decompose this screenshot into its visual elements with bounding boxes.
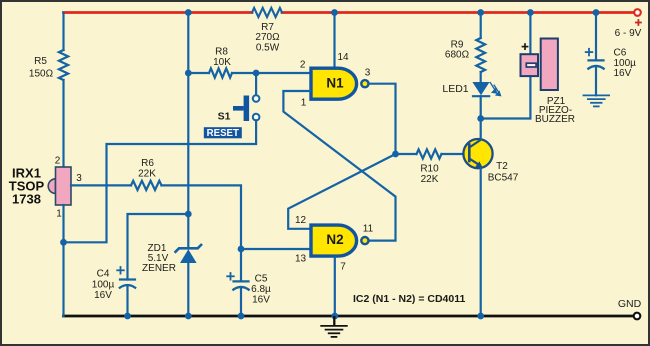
node emitter ground junction: [477, 313, 484, 320]
wire cross-coupling N2 out to N1 pin1: [283, 91, 395, 241]
svg-text:150Ω: 150Ω: [29, 69, 54, 80]
svg-text:12: 12: [295, 215, 307, 226]
node LED / buzzer junction: [477, 115, 484, 122]
svg-text:BC547: BC547: [488, 172, 519, 183]
node pin7 ground junction: [331, 313, 338, 320]
wire N1 pin14 to supply: [333, 13, 335, 68]
svg-text:7: 7: [340, 262, 346, 273]
node S1 branch junction: [253, 70, 260, 77]
wire R6 to C5 column: [162, 185, 242, 281]
svg-text:N2: N2: [326, 232, 343, 247]
svg-text:16V: 16V: [94, 290, 112, 301]
ground terminal GND: [634, 313, 641, 320]
svg-text:R5: R5: [34, 56, 47, 67]
wire R10 line: [396, 153, 417, 155]
svg-text:C4: C4: [97, 269, 110, 280]
ground symbol below rail: [333, 316, 335, 326]
node C4 ground junction: [124, 313, 131, 320]
svg-text:100µ: 100µ: [92, 280, 115, 291]
resistor R9: [476, 38, 485, 72]
svg-text:ZENER: ZENER: [142, 263, 176, 274]
node red rail / main vertical: [185, 9, 192, 16]
wire supply to C6: [595, 13, 597, 61]
resistor R8: [209, 68, 232, 77]
svg-text:13: 13: [295, 254, 307, 265]
wire buzzer branch: [481, 78, 531, 119]
piezo buzzer PZ1: [521, 54, 539, 76]
svg-text:680Ω: 680Ω: [445, 50, 470, 61]
svg-text:2: 2: [300, 60, 306, 71]
ground symbol C6: [583, 95, 610, 106]
node N1 output / R10 junction: [392, 151, 399, 158]
node ZD1 ground junction: [185, 313, 192, 320]
svg-text:6 - 9V: 6 - 9V: [615, 28, 642, 39]
node C5 ground junction: [238, 313, 245, 320]
svg-text:1738: 1738: [12, 192, 41, 207]
wire supply to buzzer: [529, 13, 531, 54]
wire cross-coupling N1 out to N2 pin12: [288, 154, 395, 229]
svg-text:R10: R10: [420, 164, 439, 175]
op-gate N2 (NAND, CD4011): [311, 225, 357, 256]
switch S1 (push-to-on): [253, 95, 260, 102]
svg-text:T2: T2: [496, 161, 508, 172]
wire LED1 to T2 collector: [480, 96, 482, 139]
op-gate N1 (NAND, CD4011): [311, 68, 357, 99]
svg-text:1: 1: [56, 209, 62, 220]
wire N2 pin7 to ground: [334, 258, 336, 317]
wire C5 to ground rail: [240, 288, 242, 316]
node pin14 supply junction: [331, 9, 338, 16]
svg-text:10K: 10K: [213, 57, 231, 68]
wire R5 to IRX1 pin2: [62, 80, 64, 167]
node C6 supply junction: [593, 9, 600, 16]
wire ground rail (black): [64, 315, 635, 318]
svg-text:3: 3: [365, 68, 371, 79]
wire zener node to C4: [128, 214, 189, 280]
supply terminal + 6-9V: [634, 9, 641, 16]
wire IRX1 pin1 to ground rail: [62, 205, 64, 316]
wire C5 node to N2 pin13: [241, 248, 310, 250]
svg-text:BUZZER: BUZZER: [535, 114, 575, 125]
svg-text:11: 11: [363, 223, 374, 234]
resistor R6: [131, 181, 162, 190]
svg-text:14: 14: [337, 52, 349, 63]
svg-text:6.8µ: 6.8µ: [251, 284, 271, 295]
capacitor C5: [232, 281, 249, 290]
node buzzer supply junction: [527, 9, 534, 16]
svg-text:RESET: RESET: [207, 128, 239, 139]
node IRX1 pin1 / reset return junction: [60, 239, 67, 246]
IR receiver IRX1 TSOP1738: [48, 179, 55, 194]
wire R5 column: [62, 13, 64, 51]
wire T2 emitter to ground rail: [480, 168, 482, 316]
svg-text:0.5W: 0.5W: [256, 42, 280, 53]
wire main vertical rail x=188: [187, 13, 189, 247]
wire IRX1 pin3 to R6: [71, 184, 131, 186]
zener diode ZD1 5.1V: [175, 244, 202, 253]
wire S1 top branch: [255, 73, 257, 95]
label RESET: [204, 127, 242, 138]
capacitor C4: [119, 280, 136, 289]
svg-text:C6: C6: [614, 48, 627, 59]
node R8 left junction: [185, 70, 192, 77]
svg-text:1: 1: [301, 98, 307, 109]
svg-text:16V: 16V: [614, 68, 632, 79]
svg-text:2: 2: [55, 156, 61, 167]
svg-text:C5: C5: [255, 274, 268, 285]
resistor R7: [252, 8, 282, 17]
svg-text:N1: N1: [326, 75, 344, 90]
node R9 supply junction: [477, 9, 484, 16]
wire C4 to ground rail: [126, 286, 128, 316]
LED LED1: [472, 82, 489, 95]
svg-text:16V: 16V: [252, 295, 270, 306]
svg-text:LED1: LED1: [442, 83, 468, 95]
resistor R5: [59, 50, 68, 80]
svg-text:GND: GND: [618, 298, 642, 310]
wire positive supply rail (red): [64, 11, 253, 14]
wire R9 to LED1: [480, 72, 482, 83]
capacitor C6: [587, 60, 604, 69]
transistor T2 BC547: [463, 139, 492, 168]
resistor R10: [417, 149, 442, 158]
wire N1 output to R10 node: [369, 84, 396, 154]
node C5 / N2 pin13 junction: [238, 246, 245, 253]
wire S1 bottom to IRX1 pin1 node: [64, 120, 257, 242]
node zener/C4 junction: [185, 211, 192, 218]
svg-text:3: 3: [76, 173, 82, 184]
svg-text:S1: S1: [218, 111, 231, 123]
wire R8 line to N1 pin2: [188, 72, 209, 74]
wire supply to R9: [480, 13, 482, 39]
wire C6 to ground symbol: [595, 67, 597, 95]
svg-text:22K: 22K: [138, 168, 156, 179]
svg-text:IC2 (N1 - N2) = CD4011: IC2 (N1 - N2) = CD4011: [353, 293, 465, 305]
svg-text:22K: 22K: [421, 174, 439, 185]
